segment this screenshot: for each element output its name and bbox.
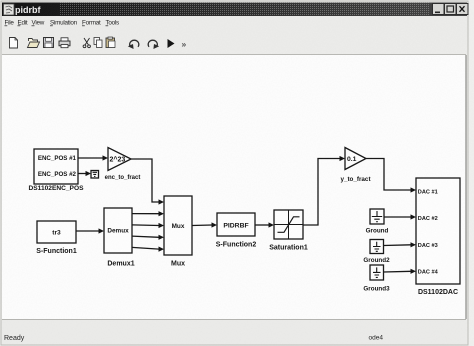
toolbar: open folder icon xyxy=(28,39,40,48)
block Demux xyxy=(104,208,132,253)
wire gain y_to_fract to DAC #1 xyxy=(366,159,416,193)
toolbar: paste icon xyxy=(106,37,115,48)
toolbar: cut scissors icon xyxy=(83,38,90,48)
toolbar: redo arrow icon xyxy=(148,40,159,49)
wire Saturation1 to gain y_to_fract xyxy=(303,156,345,225)
canvas right border xyxy=(465,55,467,319)
ground block Ground xyxy=(370,209,384,224)
status bar xyxy=(2,319,466,344)
block S-Function1 (tr3) xyxy=(37,221,76,243)
toolbar: play button xyxy=(168,39,175,48)
toolbar bottom separator xyxy=(2,54,466,56)
wire PIDRBF to Saturation1 xyxy=(255,222,274,227)
canvas xyxy=(2,55,466,319)
wire Ground to DAC #2 xyxy=(384,214,416,219)
ground block Ground3 xyxy=(370,265,384,280)
wire ENC_POS #1 to gain enc_to_fract xyxy=(78,155,108,160)
wire Demux out4 to Mux input 5 xyxy=(132,247,164,252)
block Mux xyxy=(164,196,192,255)
wire Ground3 to DAC #4 xyxy=(384,269,417,274)
block Saturation1 xyxy=(274,210,303,239)
gain enc_to_fract (2^23) xyxy=(108,148,131,171)
maximize button xyxy=(445,4,457,15)
wire Ground2 to DAC #3 xyxy=(384,242,417,247)
title bar xyxy=(2,3,467,17)
ground block Ground2 xyxy=(370,240,384,254)
terminator block xyxy=(91,171,99,179)
wire Demux out2 to Mux input 3 xyxy=(132,223,164,228)
wire Demux out1 to Mux input 2 xyxy=(132,211,164,216)
toolbar: print icon xyxy=(59,38,70,48)
minimize button xyxy=(433,4,445,15)
menu bar xyxy=(5,20,120,27)
toolbar: undo arrow icon xyxy=(128,40,139,49)
toolbar: copy icon xyxy=(94,38,102,48)
wire tr3 to Demux xyxy=(76,228,104,233)
wire Mux to PIDRBF xyxy=(192,222,217,227)
toolbar: new document icon xyxy=(10,38,18,49)
gain y_to_fract (0.1) xyxy=(345,148,366,170)
block DS1102ENC_POS xyxy=(34,149,78,184)
wire ENC_POS #2 to terminator xyxy=(78,171,91,176)
block DS1102DAC xyxy=(416,178,460,284)
wire Demux out3 to Mux input 4 xyxy=(132,235,164,240)
wire gain enc_to_fract to Mux input 1 xyxy=(131,159,164,205)
title bar app icon xyxy=(4,4,15,15)
close button xyxy=(457,4,469,15)
toolbar: save floppy icon xyxy=(44,38,54,48)
block S-Function2 (PIDRBF) xyxy=(217,213,255,236)
